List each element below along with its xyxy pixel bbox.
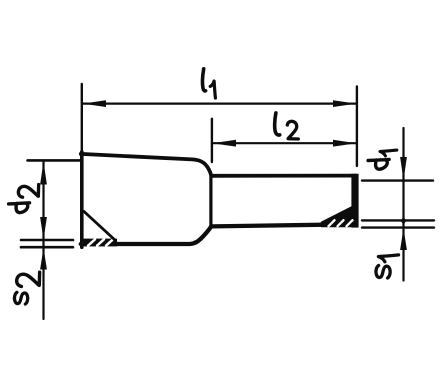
label s2 (rotated) [14, 272, 39, 304]
double extension lines for s2 (collar inner/outer bottom) [21, 240, 73, 247]
extension line for d1 top (tube inner top) [362, 179, 433, 181]
label s1 (rotated) [376, 255, 399, 278]
dimension line d1/s1 vertical [402, 128, 404, 281]
tube right end face (thick bar) [351, 174, 358, 228]
arrowhead l1 left [83, 100, 107, 107]
collar section triangle hypotenuse [84, 212, 116, 241]
extension line for d2 top (collar inner top) [28, 159, 81, 162]
collar-tube boundary vertical line [209, 177, 212, 227]
arrowhead l2 left [212, 140, 236, 147]
white hatch slashes in left band [88, 239, 113, 245]
double extension lines for s1 (tube inner/outer bottom) [362, 220, 434, 227]
arrowhead s2 up [40, 248, 47, 270]
label d2 (rotated) [9, 185, 39, 213]
arrowhead d2 down [40, 217, 47, 240]
tube bottom right hatched wedge [322, 206, 355, 227]
arrowhead d1 down [400, 157, 407, 180]
dimension line l1 [82, 102, 357, 104]
arrowhead d2 up [40, 162, 47, 185]
extension line left for l2 [211, 119, 213, 162]
arrowhead l1 right [333, 100, 356, 107]
arrowhead l2 right [333, 140, 356, 147]
ferrule collar top edge and tube top edge [81, 154, 356, 176]
ferrule collar bottom edge and tube bottom edge [81, 224, 352, 244]
dimension line d2/s2 vertical [42, 162, 44, 320]
arrowhead s1 up [400, 228, 407, 250]
arrow dot at s1 upper line [401, 217, 407, 225]
white hatch slashes in right wedge [329, 220, 353, 226]
label l2 [275, 113, 299, 139]
extension line right shared by l1 and l2 [356, 87, 358, 167]
collar bottom left hatched section band [81, 239, 118, 247]
dimension line l2 [212, 142, 357, 144]
ferrule collar left edge [80, 152, 84, 247]
extension line left for l1 [81, 84, 83, 152]
label l1 [203, 69, 216, 98]
label d1 (rotated) [368, 150, 397, 169]
